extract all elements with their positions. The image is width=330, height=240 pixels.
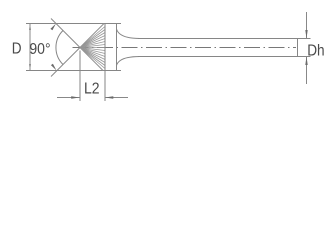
svg-text:D: D — [12, 40, 22, 57]
shank top line + Dh extension — [138, 38, 311, 40]
flute end face — [104, 24, 106, 71]
head right face — [116, 24, 118, 71]
L2 extension line right — [104, 71, 106, 102]
cone upper surface — [80, 24, 104, 48]
L2 dimension arrow left — [71, 96, 79, 98]
svg-text:Dh: Dh — [307, 42, 324, 59]
head top edge (extension line for D) — [26, 23, 121, 25]
shank end face — [297, 39, 299, 57]
head bottom edge (extension line for D) — [26, 70, 121, 72]
angle leg upper — [51, 19, 80, 48]
svg-text:L2: L2 — [84, 81, 100, 98]
Dh dimension line top — [306, 12, 308, 39]
L2 dimension arrow right — [105, 96, 113, 98]
centerline — [73, 47, 297, 49]
D dimension arrow up — [29, 24, 31, 31]
angle arc — [56, 31, 63, 65]
L2 extension line left — [79, 51, 81, 102]
svg-text:90°: 90° — [29, 41, 50, 58]
shank bottom line + Dh extension — [138, 56, 311, 58]
Dh dimension line bottom — [306, 57, 308, 85]
neck fillet top — [117, 29, 141, 39]
L2 dimension line left — [57, 97, 80, 99]
angle leg lower — [51, 48, 80, 77]
angle arrow upper — [50, 24, 56, 31]
angle arrow lower — [51, 64, 57, 71]
Dh dimension arrow top — [305, 30, 307, 39]
Dh dimension arrow bottom — [305, 57, 307, 66]
cone lower surface — [80, 48, 103, 71]
neck fillet bottom — [117, 57, 141, 66]
D dimension arrow down — [29, 64, 31, 71]
D dimension line — [29, 24, 31, 71]
L2 dimension line right — [105, 97, 128, 99]
flute fan lines — [80, 27, 105, 69]
